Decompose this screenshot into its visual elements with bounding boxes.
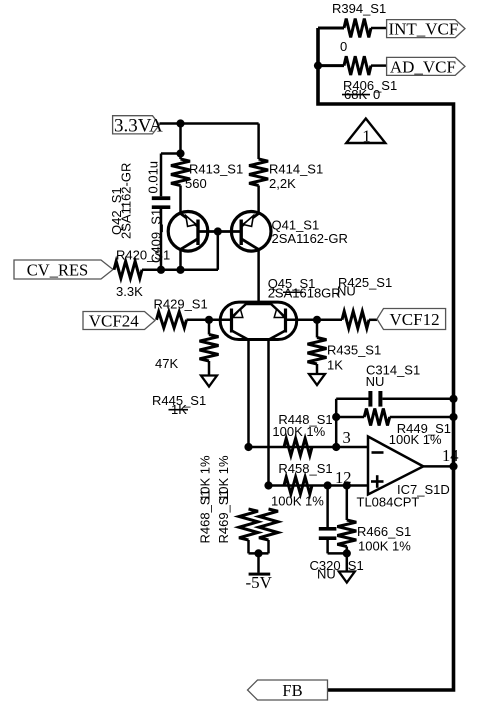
svg-text:FB: FB bbox=[282, 681, 302, 700]
svg-text:NU: NU bbox=[366, 374, 385, 389]
svg-text:3.3K: 3.3K bbox=[116, 284, 143, 299]
svg-text:2,2K: 2,2K bbox=[269, 176, 296, 191]
svg-text:R414_S1: R414_S1 bbox=[269, 162, 323, 177]
svg-text:100K 1%: 100K 1% bbox=[272, 424, 325, 439]
svg-text:3: 3 bbox=[343, 428, 351, 447]
svg-text:12: 12 bbox=[335, 468, 352, 487]
svg-text:2SA1618GR: 2SA1618GR bbox=[268, 286, 341, 301]
svg-text:0: 0 bbox=[340, 39, 347, 54]
svg-text:NU: NU bbox=[317, 567, 336, 582]
svg-text:VCF24: VCF24 bbox=[89, 312, 140, 331]
svg-text:100K 1%: 100K 1% bbox=[271, 494, 324, 509]
svg-text:100K 1%: 100K 1% bbox=[389, 432, 442, 447]
svg-text:560: 560 bbox=[185, 176, 207, 191]
svg-text:1K: 1K bbox=[327, 358, 343, 373]
svg-text:1: 1 bbox=[362, 127, 371, 146]
svg-text:2SA1162-GR: 2SA1162-GR bbox=[272, 231, 348, 246]
svg-text:NU: NU bbox=[337, 284, 356, 299]
svg-text:0.01u: 0.01u bbox=[146, 161, 161, 194]
svg-text:R394_S1: R394_S1 bbox=[332, 1, 386, 16]
svg-text:10K 1%: 10K 1% bbox=[198, 455, 213, 501]
svg-text:VCF12: VCF12 bbox=[390, 310, 440, 329]
svg-text:R466_S1: R466_S1 bbox=[357, 524, 411, 539]
svg-text:100K 1%: 100K 1% bbox=[358, 539, 411, 554]
svg-text:R458_S1: R458_S1 bbox=[278, 461, 332, 476]
svg-text:R435_S1: R435_S1 bbox=[327, 343, 381, 358]
svg-text:R420_S1: R420_S1 bbox=[116, 248, 170, 263]
svg-text:-5V: -5V bbox=[246, 573, 273, 592]
svg-text:TL084CPT: TL084CPT bbox=[357, 495, 420, 510]
svg-text:10K 1%: 10K 1% bbox=[216, 455, 231, 501]
svg-text:3.3VA: 3.3VA bbox=[114, 116, 163, 137]
svg-text:2SA1162-GR: 2SA1162-GR bbox=[119, 163, 134, 239]
svg-text:R429_S1: R429_S1 bbox=[154, 297, 208, 312]
svg-text:R413_S1: R413_S1 bbox=[189, 162, 243, 177]
svg-text:INT_VCF: INT_VCF bbox=[388, 20, 458, 39]
svg-text:AD_VCF: AD_VCF bbox=[390, 58, 456, 77]
svg-text:14: 14 bbox=[442, 446, 459, 465]
svg-text:CV_RES: CV_RES bbox=[27, 260, 88, 279]
svg-text:47K: 47K bbox=[155, 356, 178, 371]
svg-text:0: 0 bbox=[373, 87, 380, 102]
